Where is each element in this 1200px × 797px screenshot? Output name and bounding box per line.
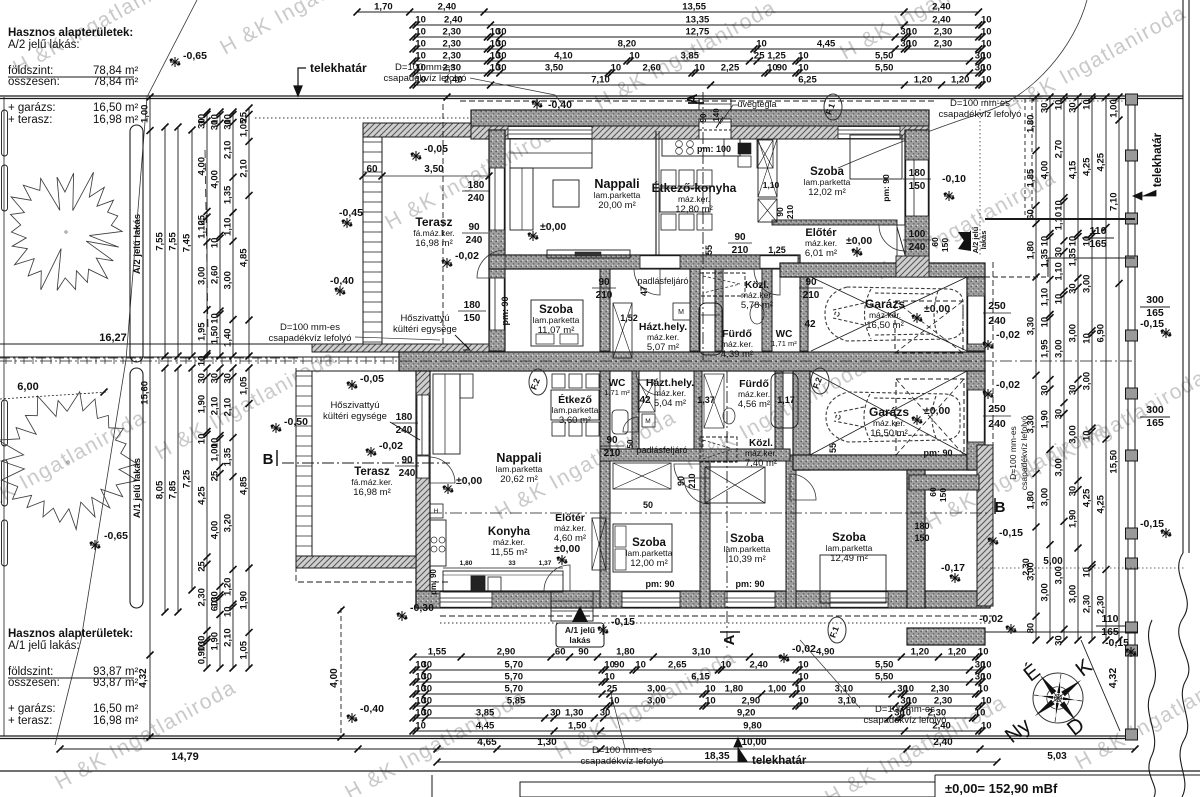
A/1 szoba1 closet left (592, 518, 606, 570)
svg-text:lam.parketta: lam.parketta (626, 548, 673, 558)
svg-text:4,25: 4,25 (197, 486, 208, 505)
svg-text:4,85: 4,85 (239, 476, 250, 495)
top dim row 1 (357, 11, 979, 13)
svg-text:13,55: 13,55 (682, 2, 706, 13)
svg-text:5,07 m²: 5,07 m² (647, 342, 679, 353)
svg-text:240: 240 (468, 193, 485, 204)
svg-text:5,50: 5,50 (875, 660, 894, 671)
A/1 bed 3 (820, 555, 886, 603)
door arc wc A/1 (623, 417, 638, 432)
svg-text:16,50 m²: 16,50 m² (93, 102, 139, 114)
svg-text:-0,50: -0,50 (284, 416, 308, 428)
svg-text:110: 110 (1090, 225, 1107, 237)
level marker (335, 286, 345, 296)
svg-text:máz.ker.: máz.ker. (741, 290, 773, 300)
svg-text:D=100 mm-es: D=100 mm-es (875, 704, 935, 715)
svg-text:5,03: 5,03 (1047, 751, 1067, 762)
svg-text:D=100 mm-es: D=100 mm-es (1008, 426, 1018, 480)
level marker (912, 313, 922, 323)
svg-text:16,98 m²: 16,98 m² (353, 487, 391, 498)
svg-text:12,02 m²: 12,02 m² (808, 187, 846, 198)
A/1 hazt X shelf (638, 380, 655, 412)
svg-text:2,40: 2,40 (438, 2, 457, 13)
svg-text:M: M (678, 309, 684, 316)
svg-text:240: 240 (988, 315, 1006, 327)
svg-text:-0,30: -0,30 (410, 602, 434, 614)
svg-text:8,20: 8,20 (618, 39, 637, 50)
left col 3b (177, 368, 179, 612)
door arc entry A/1 (544, 565, 570, 591)
svg-text:csapadékvíz lefolyó: csapadékvíz lefolyó (384, 73, 467, 84)
level marker (598, 625, 608, 635)
svg-text:Hőszivattyú: Hőszivattyú (330, 400, 379, 411)
svg-text:pm: 90: pm: 90 (500, 296, 510, 325)
neighbour garden dotted top right (1024, 99, 1026, 218)
svg-text:2,90: 2,90 (497, 647, 516, 658)
svg-text:pm: 90: pm: 90 (923, 448, 952, 458)
svg-text:+ terasz:: + terasz: (8, 114, 52, 126)
svg-text:1,80: 1,80 (616, 647, 635, 658)
left col 6b (219, 368, 221, 668)
svg-text:5,50: 5,50 (875, 672, 894, 683)
section line B-B right part (430, 512, 990, 514)
A/2 eloter entry door east (897, 225, 905, 257)
svg-text:3,00: 3,00 (1068, 585, 1079, 604)
svg-text:9,20: 9,20 (737, 708, 756, 719)
left col 4a (191, 130, 193, 356)
svg-text:3,00: 3,00 (1068, 425, 1079, 444)
svg-text:3,00: 3,00 (1054, 458, 1065, 477)
right col 4 (1077, 97, 1079, 640)
svg-text:9,80: 9,80 (743, 721, 762, 732)
A/1 sofa (433, 374, 460, 454)
svg-text:90: 90 (598, 277, 610, 288)
tree south (0, 392, 138, 530)
svg-text:csapadékvíz lefolyó: csapadékvíz lefolyó (269, 333, 352, 344)
level marker (170, 57, 180, 67)
svg-text:1,17: 1,17 (777, 395, 795, 405)
svg-text:±0,00: ±0,00 (554, 543, 580, 555)
svg-text:1,20: 1,20 (951, 75, 970, 86)
A/2 terrace west ladder wall (363, 137, 382, 351)
svg-text:máz.ker.: máz.ker. (678, 194, 710, 204)
uvegtegla glass block entry gap (699, 119, 731, 139)
section line A-A (702, 92, 704, 360)
A/2 north exterior wall insulation (471, 110, 929, 126)
closet X between hazt and furdo (704, 374, 724, 428)
A/2 sofa L-shape (510, 139, 592, 168)
svg-text:180: 180 (464, 300, 481, 311)
svg-text:1,30: 1,30 (537, 737, 557, 748)
svg-text:20,00 m²: 20,00 m² (598, 200, 636, 211)
svg-text:3,00: 3,00 (647, 696, 666, 707)
svg-text:1,90: 1,90 (1040, 410, 1051, 429)
svg-text:máz.ker.: máz.ker. (738, 389, 770, 399)
A/1 bed 1 (613, 524, 672, 572)
A/1 garage dashed zone (896, 379, 964, 455)
svg-text:15,60: 15,60 (140, 381, 151, 405)
svg-text:2,30: 2,30 (443, 51, 462, 62)
svg-text:összesen:: összesen: (8, 76, 60, 88)
neighbour walls right (985, 218, 1135, 220)
svg-text:8,05: 8,05 (155, 480, 166, 499)
A/2 garage dashed zone (895, 301, 963, 353)
svg-text:90: 90 (775, 207, 785, 217)
party wall between units (399, 352, 985, 371)
left col 6a (219, 112, 221, 356)
svg-text:3,00: 3,00 (1082, 275, 1093, 294)
svg-text:üvegtégla: üvegtégla (737, 99, 776, 109)
svg-text:4,90: 4,90 (816, 647, 835, 658)
right col 2 (1049, 97, 1051, 640)
svg-text:7,25: 7,25 (182, 469, 193, 488)
svg-text:60: 60 (366, 164, 378, 175)
svg-text:180: 180 (909, 168, 926, 179)
A/1 rear range walls (907, 470, 925, 608)
svg-text:6,00: 6,00 (17, 381, 38, 393)
svg-text:1,80: 1,80 (725, 684, 744, 695)
svg-text:150: 150 (464, 313, 481, 324)
A/1 etkezo dining set (551, 390, 599, 420)
tree north (11, 172, 123, 290)
svg-text:-0,40: -0,40 (548, 99, 572, 111)
left col 2b (164, 368, 166, 612)
svg-text:-0,02: -0,02 (996, 379, 1020, 391)
svg-text:2,40: 2,40 (749, 660, 768, 671)
svg-text:-0,02: -0,02 (996, 329, 1020, 341)
svg-text:padlásfeljáró: padlásfeljáró (637, 276, 688, 286)
svg-text:4,45: 4,45 (476, 721, 495, 732)
svg-text:lam.parketta: lam.parketta (594, 190, 641, 200)
svg-text:kültéri egysége: kültéri egysége (323, 411, 387, 422)
svg-text:-0,65: -0,65 (104, 530, 128, 542)
svg-text:D=100 mm-es: D=100 mm-es (395, 62, 455, 73)
svg-text:-0,02: -0,02 (979, 613, 1003, 625)
left col 1 (149, 97, 151, 655)
svg-text:±0,00: ±0,00 (924, 303, 950, 315)
svg-text:14,79: 14,79 (171, 751, 199, 763)
svg-text:-0,65: -0,65 (183, 50, 207, 62)
svg-text:összesen:: összesen: (8, 677, 60, 689)
level marker (411, 151, 421, 161)
svg-text:4,00: 4,00 (210, 170, 221, 189)
top dim row 7 (413, 84, 982, 86)
svg-text:1,05: 1,05 (239, 640, 250, 659)
svg-text:2,70: 2,70 (1054, 140, 1065, 159)
svg-text:1,95: 1,95 (1040, 339, 1051, 358)
svg-text:máz.ker.: máz.ker. (805, 238, 837, 248)
right col 6 (1105, 97, 1107, 640)
svg-text:90: 90 (777, 63, 788, 74)
svg-text:4,65: 4,65 (477, 737, 497, 748)
svg-text:máz.ker.: máz.ker. (745, 448, 777, 458)
top dim row 6 (413, 72, 982, 74)
A/2 north exterior wall inner leaf (471, 126, 929, 139)
svg-text:210: 210 (803, 290, 820, 301)
svg-text:1,20: 1,20 (948, 647, 967, 658)
svg-text:-0,05: -0,05 (360, 373, 384, 385)
svg-text:fá.máz.ker.: fá.máz.ker. (413, 228, 455, 238)
entry steps A/2 top (699, 99, 731, 110)
A/2 bed szoba2 (531, 300, 583, 346)
svg-text:1,20: 1,20 (223, 578, 234, 597)
svg-text:máz.ker.: máz.ker. (869, 310, 901, 320)
svg-text:5,70: 5,70 (505, 660, 524, 671)
svg-text:4,85: 4,85 (239, 248, 250, 267)
A/2 nappali-etkezo partition (655, 131, 657, 255)
svg-text:3,00: 3,00 (1040, 488, 1051, 507)
A/1 terrace south edge (296, 556, 416, 568)
A/2 garage X brace (811, 277, 967, 351)
A/2 interior partitions (600, 269, 610, 351)
svg-text:Hőszivattyú: Hőszivattyú (400, 313, 449, 324)
entry steps A/1 (551, 591, 593, 621)
svg-text:máz.ker.: máz.ker. (647, 332, 679, 342)
left col 4b (191, 368, 193, 590)
left col 8a (248, 108, 250, 356)
svg-text:2,30: 2,30 (1096, 595, 1107, 614)
svg-text:6,25: 6,25 (798, 75, 817, 86)
svg-text:1,95: 1,95 (197, 322, 208, 341)
svg-text:1,05: 1,05 (239, 376, 250, 395)
svg-text:±0,00= 152,90 mBf: ±0,00= 152,90 mBf (945, 781, 1058, 796)
A/1 garage X brace (810, 371, 967, 455)
svg-text:máz.ker.: máz.ker. (654, 388, 686, 398)
svg-text:2,30: 2,30 (443, 27, 462, 38)
right col 5 (1091, 97, 1093, 640)
svg-text:5,85: 5,85 (507, 696, 526, 707)
svg-text:1,10: 1,10 (1040, 288, 1051, 307)
svg-text:lam.parketta: lam.parketta (724, 544, 771, 554)
svg-text:4,00: 4,00 (1040, 161, 1051, 180)
property boundary top (telekhatar) (0, 95, 1183, 97)
svg-text:1,25: 1,25 (768, 245, 786, 255)
svg-text:55: 55 (704, 245, 714, 255)
svg-text:+ garázs:: + garázs: (8, 102, 56, 114)
svg-text:1,80: 1,80 (1026, 115, 1037, 134)
svg-text:25: 25 (607, 684, 618, 695)
svg-text:1,10: 1,10 (197, 220, 208, 239)
A/1 terrace west ladder (296, 371, 312, 560)
interior dims (363, 175, 489, 177)
A/1 garage walls (793, 371, 810, 470)
svg-text:11,55 m²: 11,55 m² (491, 547, 528, 558)
4,32 diagonal dim right bottom (1081, 640, 1120, 731)
left fence (3, 97, 5, 736)
svg-text:A/2 jelű lakás:: A/2 jelű lakás: (8, 39, 80, 51)
svg-text:3,85: 3,85 (476, 708, 495, 719)
svg-text:4,32: 4,32 (138, 668, 149, 688)
svg-text:180: 180 (468, 180, 485, 191)
svg-text:1,10: 1,10 (1054, 212, 1065, 231)
door arc előtér A/2 (879, 225, 905, 251)
bottom dim row 6 (413, 717, 976, 719)
A/2 eloter south hatch pier (896, 256, 929, 277)
level marker (557, 555, 567, 565)
svg-text:6,90: 6,90 (1096, 324, 1107, 343)
svg-text:7,45: 7,45 (182, 233, 193, 252)
overhang dotted east (979, 109, 981, 256)
top dim row 5 (413, 60, 982, 62)
level marker (912, 415, 922, 425)
svg-text:15,50: 15,50 (1109, 450, 1120, 474)
level marker (1126, 647, 1136, 657)
svg-text:1,90: 1,90 (197, 395, 208, 414)
top dim row 4 (413, 48, 982, 50)
top dim row 2 (413, 24, 982, 26)
svg-text:1,90: 1,90 (1068, 510, 1079, 529)
svg-text:47: 47 (639, 286, 649, 296)
svg-text:pm: 100: pm: 100 (697, 144, 731, 154)
svg-text:240: 240 (909, 242, 926, 253)
A/2 mid dividing wall (489, 255, 800, 269)
svg-text:B: B (995, 499, 1006, 516)
svg-text:100: 100 (909, 229, 926, 240)
level marker (347, 380, 357, 390)
svg-text:16,27: 16,27 (99, 332, 127, 344)
svg-text:4,25: 4,25 (1082, 157, 1093, 176)
svg-text:lam.parketta: lam.parketta (496, 464, 543, 474)
level marker (532, 99, 542, 109)
svg-text:3,30: 3,30 (1026, 317, 1037, 336)
svg-text:7,85: 7,85 (168, 480, 179, 499)
svg-text:210: 210 (596, 290, 613, 301)
svg-text:kültéri egysége: kültéri egysége (393, 324, 457, 335)
svg-text:2,10: 2,10 (223, 141, 234, 160)
A/1 kitchen west counter (430, 504, 443, 518)
svg-text:3,85: 3,85 (680, 51, 699, 62)
svg-text:4,10: 4,10 (554, 51, 573, 62)
svg-text:11,07 m²: 11,07 m² (538, 325, 575, 336)
A/1 kitchen south counter (443, 571, 563, 592)
svg-text:1,90: 1,90 (239, 591, 250, 610)
svg-text:50: 50 (643, 500, 653, 510)
svg-text:2,10: 2,10 (239, 159, 250, 178)
svg-text:1,71 m²: 1,71 m² (604, 388, 630, 397)
svg-text:16,98 m²: 16,98 m² (93, 715, 139, 727)
level marker (1161, 528, 1171, 538)
svg-text:90: 90 (468, 222, 480, 233)
level marker (983, 340, 993, 350)
left col 5a (206, 112, 208, 356)
unit tag A/1 in plan (572, 606, 588, 622)
svg-text:1,10: 1,10 (1054, 262, 1065, 281)
A/2 kitchen counter (662, 139, 740, 156)
level marker (1161, 328, 1171, 338)
bottom dim row 5 (413, 705, 982, 707)
svg-text:2,30: 2,30 (934, 39, 953, 50)
svg-text:1,30: 1,30 (565, 708, 584, 719)
svg-text:-0,15: -0,15 (999, 527, 1023, 539)
bottom street line and title boxes (0, 770, 1200, 772)
door arc szoba A/2 (634, 269, 660, 295)
svg-text:1,85: 1,85 (1026, 168, 1037, 187)
svg-text:180: 180 (396, 412, 413, 423)
svg-text:16,98 m²: 16,98 m² (415, 238, 453, 249)
svg-text:2,30: 2,30 (1082, 595, 1093, 614)
level marker (944, 191, 954, 201)
svg-text:4,25: 4,25 (1096, 494, 1107, 513)
site access diagonal line (55, 0, 197, 745)
svg-text:telekhatár: telekhatár (310, 61, 367, 75)
svg-text:1,35: 1,35 (223, 447, 234, 466)
svg-text:4,15: 4,15 (1068, 160, 1079, 179)
svg-text:1,10: 1,10 (223, 218, 234, 237)
A/2 pantry X (757, 140, 773, 168)
svg-text:pm: 90: pm: 90 (735, 579, 764, 589)
A/2 terrace south edge strip (312, 344, 489, 352)
left col 7b (232, 368, 234, 668)
svg-text:Nappali: Nappali (496, 451, 541, 465)
unit tag A/2 left stadium (130, 125, 143, 362)
svg-text:1,71 m²: 1,71 m² (771, 339, 797, 348)
A/2 hazt shelving X (613, 303, 632, 358)
right page border lines (1182, 0, 1184, 553)
svg-text:3,50: 3,50 (424, 164, 444, 175)
svg-text:1,50: 1,50 (210, 326, 221, 345)
svg-text:2,30: 2,30 (931, 684, 950, 695)
svg-text:csapadékvíz lefolyó: csapadékvíz lefolyó (864, 715, 947, 726)
svg-text:2,60: 2,60 (210, 265, 221, 284)
svg-text:+ garázs:: + garázs: (8, 703, 56, 715)
unit tag A/1 left stadium (130, 368, 143, 608)
svg-text:165: 165 (1101, 626, 1119, 638)
svg-text:6,15: 6,15 (691, 672, 710, 683)
svg-text:-0,17: -0,17 (941, 562, 965, 574)
svg-text:lakás: lakás (569, 635, 591, 645)
svg-text:6,01 m²: 6,01 m² (805, 248, 837, 259)
A/1 west exterior wall (416, 371, 430, 608)
svg-text:3,50: 3,50 (545, 63, 564, 74)
svg-text:240: 240 (399, 468, 416, 479)
driveway / retaining wall left (0, 343, 433, 345)
18,35 dim (437, 761, 997, 763)
svg-text:3,00: 3,00 (647, 684, 666, 695)
svg-text:4,25: 4,25 (1096, 152, 1107, 171)
svg-text:10,00: 10,00 (741, 737, 766, 748)
door arc fürdő A/2 (754, 269, 780, 295)
svg-text:D=100 mm-es: D=100 mm-es (592, 745, 652, 756)
left col 3a (177, 127, 179, 356)
svg-text:A/1 jelű lakás:: A/1 jelű lakás: (8, 640, 80, 652)
svg-text:2,65: 2,65 (668, 660, 687, 671)
svg-text:pm: 90: pm: 90 (429, 569, 438, 595)
svg-text:1,00: 1,00 (768, 684, 787, 695)
svg-text:2,90: 2,90 (742, 696, 761, 707)
svg-text:-0,15: -0,15 (611, 616, 635, 628)
svg-text:3,00: 3,00 (197, 267, 208, 286)
svg-text:2,10: 2,10 (210, 397, 221, 416)
A/2 tv sideboard (547, 250, 630, 258)
svg-text:2,60: 2,60 (642, 63, 661, 74)
svg-text:16,98 m²: 16,98 m² (93, 114, 139, 126)
A/2 wardrobe with X (758, 139, 777, 197)
svg-text:5,70: 5,70 (505, 684, 524, 695)
svg-text:2,30: 2,30 (197, 588, 208, 607)
svg-text:lakás: lakás (979, 231, 988, 250)
svg-text:-0,15: -0,15 (1140, 518, 1164, 530)
svg-text:1,37: 1,37 (539, 560, 552, 567)
level marker (90, 540, 100, 550)
svg-text:Garázs: Garázs (869, 405, 909, 419)
svg-text:16,50 m²: 16,50 m² (93, 703, 139, 715)
stair oval markers (824, 94, 842, 120)
svg-text:5,70: 5,70 (505, 672, 524, 683)
svg-text:180: 180 (914, 521, 929, 531)
svg-text:pm: 90: pm: 90 (645, 579, 674, 589)
svg-text:3,00: 3,00 (1040, 583, 1051, 602)
svg-text:Étkező-konyha: Étkező-konyha (652, 180, 737, 195)
